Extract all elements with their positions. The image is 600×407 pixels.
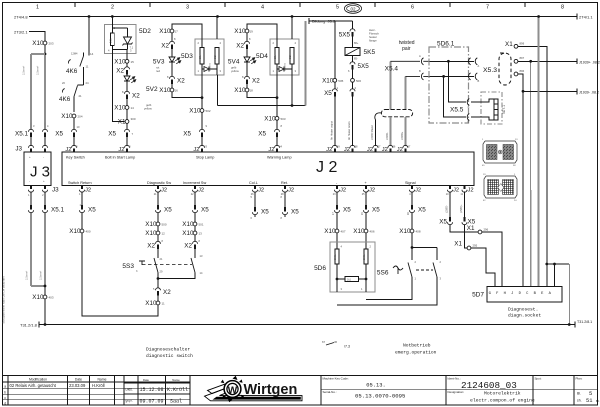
- chain Ret. stub: [284, 192, 286, 206]
- wire air heater output/return to J2: [334, 98, 336, 146]
- svg-text:X5.3: X5.3: [483, 67, 497, 74]
- connector X10 pin 505: [333, 78, 337, 82]
- svg-text:-: -: [43, 155, 44, 159]
- connector X2 below LED: [126, 89, 128, 92]
- svg-text:Designation:: Designation:: [448, 390, 465, 394]
- connector X5.3 contacts: [469, 58, 478, 65]
- svg-text:J3: J3: [52, 187, 59, 194]
- svg-text:Date: Date: [75, 377, 82, 381]
- svg-text:B: B: [419, 69, 421, 73]
- svg-text:5K5: 5K5: [364, 49, 376, 56]
- svg-text:J1939+: J1939+: [401, 131, 404, 140]
- svg-text:51: 51: [586, 398, 592, 404]
- svg-text:flange: flange: [369, 39, 377, 43]
- svg-text:X5: X5: [324, 90, 332, 97]
- svg-text:X2: X2: [252, 78, 260, 85]
- diode in 5D4: [279, 67, 284, 72]
- connector X5.3 out 897: [514, 59, 518, 63]
- wire LED return: [172, 92, 202, 98]
- connector X5.4 contact B: [405, 73, 429, 80]
- J2 top edge pins: [72, 145, 77, 148]
- svg-text:17: 17: [175, 30, 179, 34]
- dropper 5D3 module box: [195, 39, 224, 75]
- svg-text:X10: X10: [234, 28, 246, 35]
- relay coil 5K5 heater flange: [352, 38, 354, 48]
- svg-text:16: 16: [175, 89, 179, 93]
- svg-text:15.12.08: 15.12.08: [140, 387, 164, 393]
- svg-text:X5: X5: [343, 207, 351, 214]
- connector X5.1 upper pins: [30, 123, 32, 128]
- svg-text:Schutzvermerk nach DIN 34 beac: Schutzvermerk nach DIN 34 beachten: [2, 276, 6, 324]
- connector X5 key switch: [73, 127, 75, 130]
- svg-text:sh.: sh.: [577, 399, 582, 403]
- node bus junctions: [88, 15, 91, 18]
- svg-text:2,5mm²: 2,5mm²: [36, 66, 40, 75]
- svg-text:yellow: yellow: [231, 69, 240, 73]
- wire 2.5mm2 pair lower: [30, 215, 32, 287]
- chain plus: [365, 192, 367, 204]
- svg-text:Ret.: Ret.: [281, 181, 288, 185]
- svg-text:Machine Key Code:: Machine Key Code:: [323, 376, 349, 380]
- svg-text:23.03.09: 23.03.09: [69, 383, 86, 388]
- svg-text:19: 19: [250, 30, 254, 34]
- svg-text:12: 12: [162, 232, 166, 236]
- svg-text:Bl.: Bl.: [596, 399, 600, 403]
- svg-text:J3: J3: [15, 146, 22, 153]
- svg-text:J2: J2: [193, 147, 199, 153]
- svg-text:X10: X10: [399, 228, 411, 235]
- svg-text:X5.4: X5.4: [385, 66, 399, 73]
- svg-text:Switch Return: Switch Return: [68, 181, 92, 185]
- svg-text:X5: X5: [468, 219, 476, 226]
- svg-text:B: B: [478, 79, 480, 83]
- svg-text:5X5: 5X5: [358, 63, 370, 70]
- svg-text:Dies.: Dies.: [126, 388, 133, 392]
- svg-text:X5: X5: [55, 131, 63, 138]
- svg-text:503: 503: [281, 117, 286, 121]
- wire 5D2 pin3 down: [126, 50, 128, 60]
- svg-text:203: 203: [49, 42, 54, 46]
- svg-text:5D6: 5D6: [314, 265, 326, 272]
- wire 5D4 pin1 + LED return to X10 503: [276, 96, 279, 99]
- svg-text:pair: pair: [402, 46, 411, 52]
- connector X10 pin 502: [200, 109, 204, 113]
- svg-text:Plan:: Plan:: [576, 376, 583, 380]
- svg-text:X10: X10: [159, 28, 171, 35]
- svg-text:X10: X10: [264, 116, 276, 123]
- svg-text:X2: X2: [147, 243, 155, 250]
- svg-text:X10: X10: [159, 87, 171, 94]
- svg-text:13: 13: [199, 232, 203, 236]
- svg-text:X5: X5: [418, 207, 426, 214]
- connector X5.4 contact A: [390, 58, 429, 65]
- chain switch return: [81, 192, 83, 204]
- svg-text:X1: X1: [454, 241, 462, 248]
- svg-text:24: 24: [86, 81, 90, 85]
- svg-text:b: b: [4, 390, 6, 394]
- svg-text:J1939+ .08.2: J1939+ .08.2: [579, 60, 600, 64]
- svg-text:Date: Date: [143, 378, 149, 382]
- logo Wirtgen: [205, 376, 303, 402]
- svg-text:501: 501: [199, 223, 204, 227]
- svg-text:X10: X10: [182, 221, 194, 228]
- svg-text:X2: X2: [177, 78, 185, 85]
- svg-text:1N4001: 1N4001: [210, 63, 212, 71]
- svg-text:J1939-: J1939-: [386, 132, 389, 140]
- wire 5D2 supply: [111, 17, 113, 34]
- chain diagnostic sw: [157, 192, 159, 204]
- svg-text:J2: J2: [258, 188, 264, 194]
- svg-text:J2: J2: [198, 188, 204, 194]
- svg-text:5V2: 5V2: [146, 86, 158, 93]
- svg-text:/7.3: /7.3: [344, 345, 350, 349]
- svg-text:X2: X2: [184, 243, 192, 250]
- svg-text:406: 406: [370, 230, 375, 234]
- svg-text:X5: X5: [258, 131, 266, 138]
- connector X10 pin 204: [72, 114, 76, 118]
- svg-text:85-: 85-: [354, 57, 358, 61]
- shielded cable symbol: [381, 110, 412, 117]
- connector X5 warning lamp: [276, 127, 278, 130]
- svg-text:2T4/1.1: 2T4/1.1: [579, 15, 593, 20]
- svg-text:gepr.: gepr.: [126, 399, 133, 403]
- svg-text:J2: J2: [468, 188, 474, 194]
- svg-text:J1939- .08.2: J1939- .08.2: [579, 90, 599, 94]
- chain minus: [336, 192, 338, 204]
- wire from bus col2 down: [88, 17, 90, 56]
- module 5D6.1 dash-dot box: [429, 47, 469, 123]
- svg-text:J2: J2: [397, 147, 403, 153]
- svg-text:4: 4: [261, 5, 264, 11]
- svg-text:yellow: yellow: [144, 107, 153, 111]
- svg-text:X5: X5: [372, 207, 380, 214]
- svg-text:J2: J2: [453, 188, 459, 194]
- svg-text:A: A: [478, 64, 480, 68]
- svg-text:403: 403: [49, 296, 54, 300]
- svg-text:Stop Lamp: Stop Lamp: [196, 156, 214, 160]
- svg-text:1: 1: [36, 5, 39, 11]
- svg-text:10.1k: 10.1k: [335, 254, 337, 260]
- wire J1939- to edge: [522, 90, 525, 93]
- svg-text:J2: J2: [367, 147, 373, 153]
- svg-text:J2: J2: [288, 188, 294, 194]
- svg-text:Bolt in Start Lamp: Bolt in Start Lamp: [105, 156, 135, 160]
- pictogram connector upper: [483, 141, 517, 163]
- svg-text:X10: X10: [322, 78, 334, 85]
- svg-text:6: 6: [411, 5, 414, 11]
- svg-text:J2: J2: [85, 188, 91, 194]
- svg-text:T31.2/8.1: T31.2/8.1: [577, 320, 592, 324]
- chain increment sw: [194, 192, 196, 204]
- svg-text:B: B: [468, 120, 470, 124]
- svg-text:W: W: [228, 385, 238, 396]
- svg-text:Diagnosest.: Diagnosest.: [508, 307, 538, 313]
- module 5D6 box: [330, 242, 375, 292]
- wire J1939 pair gray: [389, 61, 391, 110]
- resistor in 5D2: [110, 33, 114, 46]
- chain J2 CAN A: [449, 192, 451, 216]
- svg-text:05.13.0070-0095: 05.13.0070-0095: [355, 392, 405, 399]
- dropper 5D4 module box: [270, 39, 299, 75]
- svg-text:J2: J2: [65, 147, 71, 153]
- svg-text:J2: J2: [268, 147, 274, 153]
- svg-text:X2: X2: [163, 289, 171, 296]
- svg-text:1N4001: 1N4001: [285, 63, 287, 71]
- svg-text:X5: X5: [183, 131, 191, 138]
- svg-text:X2: X2: [116, 68, 124, 75]
- svg-text:5V3: 5V3: [153, 59, 165, 66]
- connector X2: [171, 74, 173, 77]
- svg-text:X10: X10: [114, 59, 126, 66]
- connector X2: [126, 65, 128, 68]
- svg-text:500: 500: [162, 223, 167, 227]
- resistors in 5D4: [275, 48, 279, 65]
- svg-text:X5: X5: [291, 209, 299, 216]
- svg-text:896: 896: [520, 69, 525, 73]
- svg-text:Warning Lamp: Warning Lamp: [267, 156, 292, 160]
- wires inside 5D6.1: [430, 60, 475, 62]
- svg-text:2,5mm²: 2,5mm²: [25, 271, 29, 280]
- svg-text:X10: X10: [61, 113, 73, 120]
- connector X10 pin 15: [125, 59, 129, 63]
- connector X5.1 lower pins: [30, 203, 32, 205]
- svg-text:5D7.1: 5D7.1: [502, 105, 506, 114]
- svg-text:0.1k: 0.1k: [109, 38, 112, 43]
- svg-text:X5: X5: [88, 207, 96, 214]
- svg-text:296: 296: [484, 228, 489, 232]
- svg-text:Spot:: Spot:: [535, 376, 542, 380]
- wire 5D2 pin4 down-jog: [112, 50, 124, 122]
- svg-text:J2: J2: [161, 188, 167, 194]
- svg-text:J2: J2: [369, 188, 375, 194]
- svg-text:897: 897: [520, 56, 525, 60]
- wire 5D3 top elbow: [172, 24, 202, 39]
- svg-text:5D6.1: 5D6.1: [437, 41, 455, 48]
- title block: [3, 375, 599, 377]
- svg-text:red: red: [156, 69, 160, 73]
- svg-text:J2: J2: [415, 188, 421, 194]
- svg-text:5X5: 5X5: [339, 32, 351, 39]
- svg-text:(15B7)-: (15B7)-: [446, 205, 449, 213]
- svg-text:X10: X10: [69, 228, 81, 235]
- svg-text:J 3: J 3: [30, 164, 50, 181]
- svg-text:Bl.: Bl.: [577, 392, 581, 396]
- svg-text:5D2: 5D2: [139, 28, 151, 35]
- svg-text:X1: X1: [505, 41, 513, 48]
- svg-text:J1939 Shield: J1939 Shield: [371, 125, 374, 140]
- svg-text:2,5mm²: 2,5mm²: [39, 271, 43, 280]
- connector X1 pin 300: [125, 120, 129, 124]
- svg-text:X2: X2: [132, 93, 140, 100]
- svg-text:J2: J2: [382, 147, 388, 153]
- svg-text:X5: X5: [261, 209, 269, 216]
- svg-text:Name: Name: [172, 378, 180, 382]
- svg-text:X10: X10: [145, 230, 157, 237]
- svg-text:X5.1: X5.1: [51, 207, 64, 214]
- svg-text:Col.L: Col.L: [249, 181, 258, 185]
- svg-text:diagn.socket: diagn.socket: [508, 313, 541, 319]
- module 5D7.1 terminator: [481, 92, 502, 124]
- svg-text:X10: X10: [32, 294, 44, 301]
- svg-text:18: 18: [250, 89, 254, 93]
- svg-text:X5: X5: [439, 219, 447, 226]
- svg-text:407: 407: [341, 230, 346, 234]
- svg-text:2T4/4.8: 2T4/4.8: [14, 15, 28, 20]
- svg-text:7: 7: [486, 5, 489, 11]
- wire bundle to socket: [522, 91, 524, 190]
- chain J2 CAN B: [464, 192, 466, 216]
- svg-text:X5.1: X5.1: [15, 131, 28, 138]
- svg-text:Modification: Modification: [29, 377, 47, 381]
- svg-text:86+: 86+: [354, 41, 359, 45]
- svg-text:X1: X1: [467, 225, 475, 232]
- svg-text:+: +: [29, 155, 31, 159]
- connector X10 pin 203: [43, 41, 47, 45]
- svg-text:Notbetrieb: Notbetrieb: [403, 343, 431, 349]
- svg-text:67: 67: [322, 340, 326, 344]
- svg-text:X2: X2: [161, 43, 169, 50]
- svg-text:J2: J2: [326, 147, 332, 153]
- wire shield drain: [375, 113, 382, 120]
- relay contact 4K6 lower: [62, 89, 64, 93]
- svg-text:X5: X5: [164, 207, 172, 214]
- svg-text:5: 5: [589, 391, 592, 397]
- svg-text:X10: X10: [32, 40, 44, 47]
- LED 5V4: [246, 51, 248, 58]
- svg-text:295: 295: [473, 244, 478, 248]
- svg-text:Saal: Saal: [170, 399, 182, 405]
- svg-text:14: 14: [131, 106, 135, 110]
- connector X5.3 oval: [499, 53, 511, 85]
- svg-text:X10: X10: [145, 300, 157, 307]
- svg-text:502: 502: [206, 109, 211, 113]
- svg-text:X5: X5: [108, 131, 116, 138]
- svg-text:11: 11: [162, 302, 165, 306]
- svg-text:Key Switch: Key Switch: [66, 156, 85, 160]
- svg-text:J2: J2: [344, 147, 350, 153]
- svg-text:Serial-No.:: Serial-No.:: [323, 390, 337, 394]
- svg-text:Ident-No.:: Ident-No.:: [448, 376, 461, 380]
- wire 2.5mm2 pair upper: [31, 53, 45, 55]
- svg-text:(15B7)+: (15B7)+: [460, 204, 463, 213]
- svg-text:Increment Sw: Increment Sw: [183, 181, 206, 185]
- svg-text:15: 15: [131, 60, 135, 64]
- svg-text:2124608_03: 2124608_03: [461, 380, 517, 391]
- svg-text:21: 21: [79, 94, 83, 98]
- wire LED return: [247, 92, 277, 98]
- svg-text:204: 204: [78, 115, 83, 119]
- svg-text:5S3: 5S3: [122, 263, 134, 270]
- svg-text:J2: J2: [118, 147, 124, 153]
- chain Col.L stub: [254, 192, 256, 206]
- svg-text:506: 506: [356, 79, 361, 83]
- svg-text:02: 02: [350, 6, 356, 11]
- svg-text:Signal: Signal: [405, 181, 416, 185]
- dropper 5D2 module box: [105, 25, 137, 54]
- svg-text:5D3: 5D3: [181, 53, 193, 60]
- svg-text:X1: X1: [118, 119, 126, 126]
- svg-text:X10: X10: [145, 221, 157, 228]
- svg-text:8: 8: [561, 5, 564, 11]
- svg-text:H.Kröll: H.Kröll: [92, 383, 105, 388]
- connector X2: [246, 74, 248, 77]
- svg-text:X10: X10: [114, 105, 126, 112]
- svg-text:X5.5: X5.5: [450, 107, 464, 114]
- LED 5V2: [124, 76, 130, 81]
- svg-text:4K6: 4K6: [66, 68, 78, 75]
- wire top bus 2T4: [29, 16, 577, 18]
- svg-text:408: 408: [416, 230, 421, 234]
- svg-text:Diagnostic Sw: Diagnostic Sw: [147, 181, 171, 185]
- svg-text:X10: X10: [353, 228, 365, 235]
- zener diode in 5D2: [127, 28, 129, 37]
- net ref Bildung .05.2: [308, 18, 310, 24]
- svg-text:X10: X10: [182, 230, 194, 237]
- wire 5D4 top elbow: [247, 24, 277, 39]
- svg-text:T31.2/1.8: T31.2/1.8: [20, 323, 38, 328]
- svg-text:300: 300: [131, 117, 136, 121]
- svg-text:10.1k: 10.1k: [364, 254, 366, 260]
- wire air heater output riser: [334, 21, 336, 78]
- connector X10 pin 503: [275, 116, 279, 120]
- svg-text:X10: X10: [324, 228, 336, 235]
- connector X5 stop lamp: [201, 127, 203, 130]
- connector X5 pair: [334, 87, 336, 90]
- svg-text:Name: Name: [97, 377, 106, 381]
- svg-text:09.07.09: 09.07.09: [140, 399, 164, 405]
- 5D4 internal wires: [276, 39, 278, 48]
- svg-text:emerg.operation: emerg.operation: [395, 350, 437, 356]
- relay contact 4K6 upper: [68, 60, 70, 64]
- svg-text:X2: X2: [236, 43, 244, 50]
- svg-text:electr.compon.of engine: electr.compon.of engine: [470, 398, 535, 404]
- chain signal: [411, 192, 413, 204]
- connector X10 pin 19: [245, 29, 249, 33]
- svg-text:H: H: [504, 292, 506, 296]
- connector X2: [246, 39, 248, 42]
- LED 5V3: [171, 51, 173, 58]
- svg-text:1k1: 1k1: [347, 279, 352, 282]
- wire bottom bus T31: [39, 324, 575, 326]
- svg-text:X10: X10: [234, 87, 246, 94]
- wire 5D3 pin1 + LED return to X10 502: [201, 96, 204, 99]
- connector X10 pin 506: [351, 78, 355, 82]
- svg-text:a: a: [4, 384, 6, 388]
- controller J2 box: [62, 152, 474, 186]
- svg-text:d: d: [4, 401, 6, 405]
- svg-text:2: 2: [111, 5, 114, 11]
- svg-text:505: 505: [338, 79, 343, 83]
- J2 bottom edge pins: [81, 186, 83, 190]
- connector X10 pin 17: [170, 29, 174, 33]
- svg-text:5V4: 5V4: [228, 59, 240, 66]
- svg-text:A: A: [419, 54, 421, 58]
- svg-text:3: 3: [186, 5, 189, 11]
- svg-text:diagnostic switch: diagnostic switch: [146, 353, 193, 359]
- svg-text:14: 14: [90, 52, 94, 56]
- svg-text:Motorelektrik: Motorelektrik: [484, 391, 521, 397]
- svg-text:Air Heater output: Air Heater output: [331, 121, 334, 140]
- svg-text:-: -: [29, 179, 30, 183]
- svg-text:5: 5: [336, 5, 339, 11]
- pictogram connector lower: [484, 176, 517, 198]
- svg-text:2,5mm²: 2,5mm²: [22, 66, 26, 75]
- svg-text:899: 899: [520, 41, 525, 45]
- 5D3 internal wires: [201, 39, 203, 48]
- connector 5X5 lower: [352, 60, 354, 63]
- svg-text:5D7: 5D7: [472, 292, 484, 299]
- svg-text:400: 400: [86, 230, 91, 234]
